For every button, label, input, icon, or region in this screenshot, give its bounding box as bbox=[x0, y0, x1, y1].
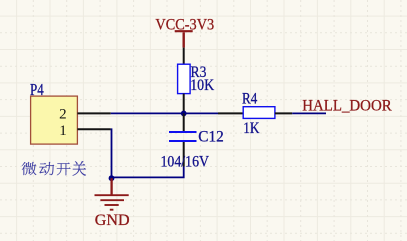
junction node B (P4 pin 1 / C12 / GND) bbox=[109, 175, 115, 181]
svg-text:C12: C12 bbox=[198, 129, 224, 146]
comment text 微动开关 (micro switch) bbox=[22, 161, 86, 176]
svg-text:VCC-3V3: VCC-3V3 bbox=[155, 17, 214, 34]
wire: C12 to ground net (L shape) bbox=[112, 167, 184, 178]
svg-text:1: 1 bbox=[59, 123, 67, 139]
svg-text:10K: 10K bbox=[190, 77, 214, 94]
svg-text:P4: P4 bbox=[30, 80, 44, 99]
power port VCC-3V3 bbox=[175, 31, 193, 47]
svg-text:104/16V: 104/16V bbox=[161, 154, 210, 171]
wire: power port to R3 pin 1 bbox=[183, 48, 185, 65]
wire: node A to C12 top plate bbox=[183, 113, 185, 131]
wire: R4 pin 2 bbox=[275, 112, 292, 114]
resistor R3 bbox=[178, 64, 191, 93]
pin 2 of P4 bbox=[77, 112, 110, 114]
wire: node A to R4 pin 1 bbox=[218, 112, 243, 114]
pin 1 of P4 bbox=[77, 128, 110, 130]
svg-text:GND: GND bbox=[95, 212, 130, 229]
svg-text:2: 2 bbox=[59, 107, 67, 123]
junction node A (R3 / C12 / P4 / R4) bbox=[181, 111, 187, 117]
resistor R4 bbox=[243, 107, 275, 119]
ground symbol bbox=[95, 178, 129, 210]
wire: P4 pin 2 to node A (main horizontal net) bbox=[111, 112, 218, 114]
wire: R3 pin 2 to node A bbox=[183, 94, 185, 114]
svg-text:HALL_DOOR: HALL_DOOR bbox=[302, 98, 392, 115]
wire: R4 to HALL_DOOR net bbox=[292, 112, 326, 114]
capacitor C12 bbox=[169, 132, 197, 141]
wire: P4 pin 1 down to ground node B bbox=[110, 129, 113, 178]
wire: C12 bottom plate down bbox=[183, 142, 185, 167]
connector P4 bbox=[31, 96, 78, 144]
svg-text:1K: 1K bbox=[243, 120, 260, 137]
svg-text:R4: R4 bbox=[242, 91, 257, 108]
